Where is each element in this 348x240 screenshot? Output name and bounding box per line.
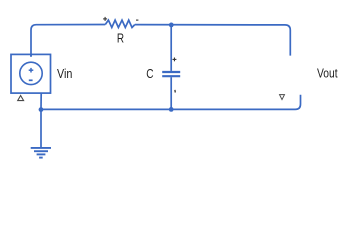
node: junction dot on top wire above capacitor [169,23,174,28]
voltage source plus mark [29,68,34,73]
svg-text:Vin: Vin [57,66,72,81]
voltage source V1 box [11,54,51,93]
polarity marker triangle at Vout - terminal [280,95,285,100]
wire: bottom net from source/ground junction to bottom-right corner up to Vout - terminal [41,95,301,110]
wire: junction down to capacitor top plate [170,25,172,71]
polarity plus mark at capacitor top [173,58,177,62]
node: junction dot on bottom wire below capacitor [169,107,174,112]
voltage source minus mark [29,79,33,81]
wire: resistor right lead to top-right corner down to Vout + terminal [135,25,290,56]
ground symbol [31,148,51,158]
polarity plus mark at resistor left [103,17,107,21]
svg-text:C: C [146,66,153,81]
polarity minus tick at capacitor bottom [174,90,176,93]
pin stub inside source box top [30,54,32,56]
resistor R (zigzag) [105,20,135,27]
svg-text:Vout: Vout [317,66,338,81]
wire: junction down to ground [40,110,42,148]
wire: source bottom pin down through junction [40,93,42,110]
wire: capacitor bottom plate down to bottom net [170,77,172,109]
voltage source V1 circle [20,62,42,84]
pin 1 marker triangle below source box [18,96,24,101]
node: junction dot where source bottom pin meets bottom net and ground [39,107,44,112]
svg-text:R: R [117,30,124,45]
capacitor C plates [162,72,180,76]
wire: top net from source top pin, left corner, to resistor left lead [31,25,105,57]
polarity minus mark at resistor right [136,19,138,21]
